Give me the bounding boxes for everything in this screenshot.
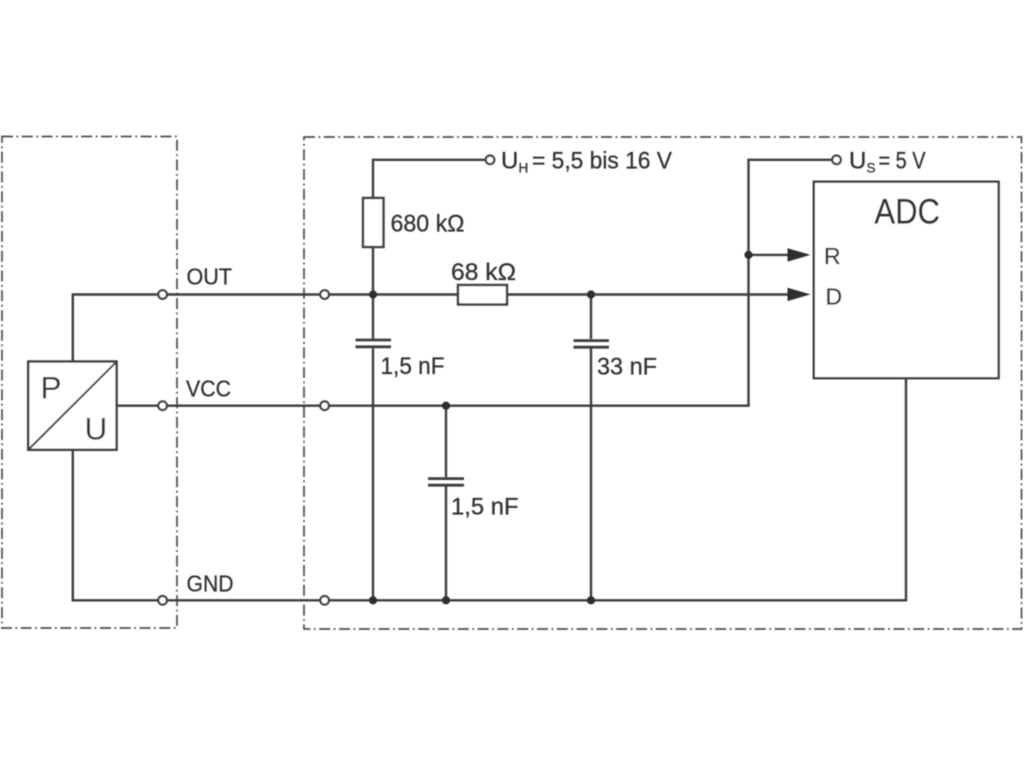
svg-text:68 kΩ: 68 kΩ bbox=[451, 259, 516, 286]
svg-text:D: D bbox=[826, 284, 843, 310]
svg-text:U: U bbox=[501, 148, 518, 175]
svg-text:= 5 V: = 5 V bbox=[879, 148, 926, 175]
svg-text:680 kΩ: 680 kΩ bbox=[391, 211, 465, 238]
svg-text:GND: GND bbox=[187, 571, 234, 597]
svg-text:OUT: OUT bbox=[187, 264, 233, 290]
svg-text:ADC: ADC bbox=[874, 193, 940, 232]
svg-text:U: U bbox=[849, 148, 866, 175]
svg-text:S: S bbox=[867, 161, 876, 176]
svg-text:1,5 nF: 1,5 nF bbox=[381, 353, 445, 380]
svg-text:U: U bbox=[85, 411, 108, 447]
svg-text:33 nF: 33 nF bbox=[597, 354, 657, 381]
svg-text:P: P bbox=[41, 370, 62, 406]
svg-text:= 5,5 bis 16 V: = 5,5 bis 16 V bbox=[532, 148, 672, 175]
svg-text:H: H bbox=[519, 161, 529, 176]
svg-text:R: R bbox=[824, 243, 841, 269]
svg-text:1,5 nF: 1,5 nF bbox=[451, 494, 519, 521]
svg-text:VCC: VCC bbox=[186, 376, 231, 402]
